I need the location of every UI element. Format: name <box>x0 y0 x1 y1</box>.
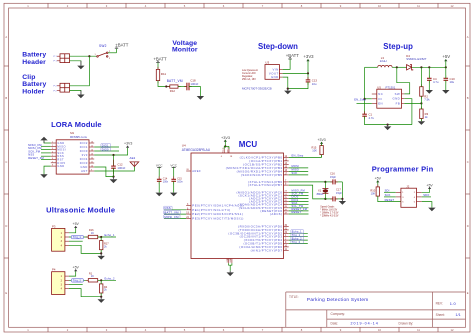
label Trig_2 <box>291 240 304 244</box>
wire DIO0 <box>94 150 119 152</box>
resistor R4 <box>100 281 108 295</box>
MCU right PD pins <box>284 227 289 251</box>
power +BATT <box>115 42 129 48</box>
wire to VCC AVCC pins <box>224 145 229 147</box>
node BATT_VM tap <box>165 85 167 87</box>
wire junction to R17 <box>100 237 102 241</box>
wire VOUT down to C13 <box>307 73 309 80</box>
svg-text:DIO4: DIO4 <box>80 157 88 161</box>
wire Trig_2 <box>289 243 308 245</box>
wire C12 to ground <box>113 168 115 176</box>
label Trig_2 boxed <box>71 279 83 283</box>
wire MOSI_FM <box>164 217 186 219</box>
connector P3 <box>52 224 69 251</box>
wire SW node down to U5 SW pin <box>397 67 410 94</box>
svg-text:GND: GND <box>271 75 279 79</box>
wire R1 to Echo_2 <box>98 279 116 281</box>
power +3V3 above R15 <box>317 138 325 145</box>
label Trig_1 boxed <box>71 235 83 239</box>
wire R10 to RESET row <box>378 196 401 202</box>
capacitor C13 <box>306 77 318 86</box>
svg-text:ANT: ANT <box>81 169 88 173</box>
wire switch to +BATT <box>108 52 117 54</box>
svg-text:MISO: MISO <box>292 168 300 172</box>
svg-text:Parking Detection System: Parking Detection System <box>307 297 369 302</box>
svg-text:11: 11 <box>417 328 420 332</box>
ground up <box>40 137 47 143</box>
svg-text:4: 4 <box>52 152 53 154</box>
text U3 description <box>242 69 258 81</box>
svg-text:3V3: 3V3 <box>82 153 88 157</box>
svg-text:MOSI_FM: MOSI_FM <box>164 215 179 219</box>
MCU right PC pins <box>284 192 289 214</box>
svg-text:GND: GND <box>392 97 400 101</box>
svg-text:Battery: Battery <box>22 52 46 59</box>
node XTAL1 <box>324 181 326 183</box>
node FB junction <box>420 102 422 104</box>
svg-text:P1: P1 <box>54 61 58 63</box>
svg-text:7.5k: 7.5k <box>424 97 430 101</box>
wire R3 to ground <box>420 119 422 122</box>
svg-text:1: 1 <box>52 142 53 144</box>
svg-text:R12: R12 <box>170 89 176 93</box>
section title Battery Header <box>22 52 46 66</box>
power +5V <box>73 266 80 272</box>
svg-text:13: 13 <box>91 154 93 156</box>
resistor R3 <box>420 107 429 122</box>
wire D4 to +5V rail <box>412 66 446 68</box>
svg-text:+5V: +5V <box>442 54 450 59</box>
node ground junction <box>112 176 114 178</box>
wire junction to R4 <box>100 280 102 284</box>
power flag VCC with C14 <box>156 164 163 180</box>
ground <box>170 193 177 197</box>
power +3V3 <box>124 142 132 148</box>
node R2 branch <box>420 66 422 68</box>
svg-text:10K: 10K <box>371 192 376 196</box>
svg-text:2: 2 <box>52 145 53 147</box>
label NSS <box>164 206 172 210</box>
node ground junction <box>100 252 102 254</box>
svg-text:+BATT: +BATT <box>286 53 300 58</box>
switch SW2 <box>95 44 112 60</box>
wire DIO1 <box>94 146 119 148</box>
svg-text:Battery: Battery <box>22 81 46 88</box>
capacitor C18 <box>184 79 198 91</box>
svg-text:1K: 1K <box>91 232 94 235</box>
svg-text:B: B <box>5 96 7 100</box>
title block <box>286 292 466 327</box>
svg-text:Echo_1: Echo_1 <box>105 233 115 237</box>
svg-text:DIO3: DIO3 <box>80 161 88 165</box>
svg-text:Ultrasonic Module: Ultrasonic Module <box>46 206 115 215</box>
wire RESET_FM <box>41 159 51 161</box>
wire GND pin to ground node <box>94 167 113 177</box>
node SW junction <box>396 66 398 68</box>
wire DIO0 <box>289 198 309 200</box>
svg-text:Header: Header <box>22 59 46 66</box>
svg-text:U3: U3 <box>265 60 269 64</box>
wire GND pin8 down <box>44 166 51 174</box>
wire SDI <box>384 191 396 193</box>
svg-text:Date:: Date: <box>331 322 339 326</box>
svg-text:16: 16 <box>91 142 93 144</box>
wire Echo_1 <box>289 232 308 234</box>
svg-text:AVCC: AVCC <box>226 146 229 152</box>
svg-text:10: 10 <box>378 4 381 8</box>
power +3V3 <box>303 54 314 61</box>
svg-text:REV:: REV: <box>436 302 443 306</box>
svg-text:SDO: SDO <box>423 193 429 197</box>
svg-text:GND: GND <box>81 165 88 169</box>
svg-text:10K: 10K <box>312 149 317 153</box>
svg-text:3: 3 <box>52 148 53 150</box>
connector P2 clip battery holder <box>54 83 70 92</box>
svg-text:AREF: AREF <box>192 169 201 173</box>
svg-text:SCK: SCK <box>385 193 391 197</box>
svg-text:9: 9 <box>91 170 92 172</box>
pin AVCC <box>228 149 230 153</box>
wire J2 pin2 to +5V <box>422 187 430 192</box>
svg-text:Monitor: Monitor <box>172 47 198 54</box>
connector J2 <box>396 184 422 207</box>
svg-text:E: E <box>5 291 7 295</box>
diode D4 <box>406 54 427 70</box>
svg-text:Trig_1: Trig_1 <box>73 236 81 239</box>
wire SCK <box>289 174 309 176</box>
wire VBAT rail left segment <box>365 66 378 68</box>
svg-text:B: B <box>467 96 469 100</box>
svg-text:(AIN1/PTCXY)PD7: (AIN1/PTCXY)PD7 <box>251 248 283 252</box>
svg-text:100nF: 100nF <box>117 166 125 170</box>
svg-text:8: 8 <box>52 165 53 167</box>
label BATT_VM <box>164 211 181 215</box>
svg-text:VCC: VCC <box>223 147 225 152</box>
svg-text:P3: P3 <box>52 224 56 228</box>
power +3V3 above MCU <box>221 136 230 146</box>
wire left vertical VBAT <box>364 67 366 114</box>
svg-text:RESET: RESET <box>292 210 302 214</box>
wire Echo_2 <box>289 239 308 241</box>
svg-text:(XTAL2/TOSC2)PB7: (XTAL2/TOSC2)PB7 <box>248 183 282 187</box>
svg-text:12: 12 <box>451 4 454 8</box>
wire SCL_TW <box>289 207 309 209</box>
wire Trig_1 <box>289 236 308 238</box>
wire MISO <box>289 170 309 172</box>
svg-text:10u: 10u <box>450 80 455 84</box>
svg-text:P2: P2 <box>54 90 58 92</box>
wire +BATT to R11 <box>157 63 159 70</box>
svg-text:D: D <box>467 224 469 228</box>
ground <box>384 125 391 131</box>
svg-text:Holder: Holder <box>22 88 44 95</box>
wire MOSI <box>289 167 309 169</box>
resistor R10 <box>370 184 379 198</box>
svg-text:MCU: MCU <box>239 140 258 149</box>
svg-text:DIO0: DIO0 <box>80 149 88 153</box>
svg-text:Clip: Clip <box>22 74 35 81</box>
svg-text:PE3(PTCXY/ADC7/T3/MOSI1): PE3(PTCXY/ADC7/T3/MOSI1) <box>192 216 244 220</box>
svg-text:SS84XL-E3/52T: SS84XL-E3/52T <box>406 57 427 61</box>
capacitor C12 <box>111 155 125 174</box>
wire R12 to C18 <box>178 86 187 88</box>
wire DIO1 <box>289 201 309 203</box>
svg-text:15pF: 15pF <box>336 191 342 195</box>
label Echo_1 <box>291 230 304 234</box>
svg-text:Speed Grade:: Speed Grade: <box>320 205 335 208</box>
svg-text:12: 12 <box>91 158 93 160</box>
wire SDA <box>289 204 309 206</box>
svg-text:Echo_2: Echo_2 <box>105 277 115 281</box>
svg-text:MOSI: MOSI <box>292 164 300 168</box>
svg-text:SW: SW <box>395 92 401 96</box>
ground <box>442 90 449 94</box>
wire P1 pin2 to ground <box>70 61 81 66</box>
wire FB to divider <box>404 102 421 104</box>
svg-text:TITLE:: TITLE: <box>289 295 299 299</box>
svg-text:14: 14 <box>91 150 93 152</box>
svg-text:15: 15 <box>91 146 93 148</box>
svg-text:Drawn By:: Drawn By: <box>399 322 414 326</box>
svg-text:+3V3: +3V3 <box>317 138 325 142</box>
svg-text:+5V: +5V <box>73 266 80 270</box>
svg-text:6: 6 <box>52 158 53 160</box>
wire bottom ground rail <box>365 116 412 124</box>
wire SDO <box>422 196 431 198</box>
wire VOUT to +3V3 <box>283 59 308 73</box>
resistor R11 <box>156 67 166 83</box>
node divider junction <box>100 236 102 238</box>
wire IN pin <box>365 98 372 100</box>
svg-text:GND: GND <box>227 257 229 262</box>
svg-text:BATT_VM: BATT_VM <box>167 79 183 83</box>
wire SCK_FM <box>289 194 309 196</box>
wire +BATT to VIN <box>283 59 291 69</box>
regulator U3 <box>265 60 283 79</box>
wire C4 to ground <box>428 80 430 90</box>
svg-text:+5V: +5V <box>73 222 80 226</box>
node C4 branch <box>428 66 430 68</box>
ground <box>339 199 346 205</box>
wire NSS <box>164 209 186 211</box>
wire R15 to pin <box>321 155 323 158</box>
svg-text:10: 10 <box>91 166 93 168</box>
wire L3 to D4 <box>392 66 407 68</box>
MCU bottom GND pins <box>227 257 232 263</box>
svg-text:+5V: +5V <box>426 183 433 187</box>
ground <box>227 271 234 276</box>
wire P3 pin4 to ground rail <box>69 245 101 253</box>
wire BATT_VM <box>164 213 186 215</box>
wire GND pins to ground <box>229 263 232 265</box>
capacitor C17 <box>325 188 342 202</box>
node IN junction <box>364 98 366 100</box>
svg-text:1K: 1K <box>91 275 94 278</box>
wire C13 to ground rail <box>288 82 308 89</box>
svg-text:EN_Step: EN_Step <box>354 97 366 101</box>
svg-text:J2: J2 <box>406 184 409 188</box>
svg-text:Programmer Pin: Programmer Pin <box>372 165 434 174</box>
connector P1 battery header <box>54 54 70 63</box>
wire R2 to FB <box>420 96 422 103</box>
node VOUT junction <box>307 72 309 74</box>
svg-text:12: 12 <box>451 328 454 332</box>
wire P3 pin1 to +5V <box>69 227 76 233</box>
ground <box>428 208 435 212</box>
label Echo_2 <box>291 236 304 240</box>
MCU left PE pins <box>186 206 191 219</box>
wire MOSI_FM <box>41 149 51 151</box>
pin VCC <box>223 149 225 153</box>
node junction battery <box>88 55 90 57</box>
svg-text:8MHz: 8MHz <box>317 192 324 196</box>
svg-text:EN_Step: EN_Step <box>292 154 304 158</box>
wire P2 pin2 to ground <box>70 90 81 94</box>
svg-text:SCK: SCK <box>292 171 298 175</box>
ground <box>284 89 291 95</box>
svg-text:RESET: RESET <box>385 198 395 202</box>
ground <box>110 177 118 184</box>
svg-text:RESET_FM: RESET_FM <box>28 156 44 160</box>
svg-text:+BATT: +BATT <box>153 57 167 62</box>
wire P2 pin1 up to junction <box>70 56 90 86</box>
svg-text:MCP1700T-3302E/CB: MCP1700T-3302E/CB <box>242 86 272 90</box>
wire FB to R3 <box>420 103 422 109</box>
node +5V branch <box>445 66 447 68</box>
wire EN_Step to R15 <box>289 156 322 158</box>
wire EN pin with label <box>357 103 372 105</box>
svg-text:22uH: 22uH <box>380 59 387 63</box>
label MOSI_FM <box>164 215 180 219</box>
ground <box>197 96 204 100</box>
svg-text:100nF: 100nF <box>190 82 198 86</box>
wire P4 pin2 to R1 <box>69 279 88 281</box>
node VCC junction <box>224 145 226 147</box>
wire MISO_FM <box>289 191 309 193</box>
svg-text:DIO1: DIO1 <box>102 143 109 147</box>
wire P3 pin3 <box>69 240 83 242</box>
svg-text:IN: IN <box>378 97 382 101</box>
svg-text:11: 11 <box>91 162 93 164</box>
power +5V <box>426 183 433 189</box>
wire R17 to ground rail <box>100 250 102 254</box>
node ground junction <box>287 88 289 90</box>
svg-text:P1: P1 <box>54 56 58 58</box>
wire 3V3 to +3V3 <box>94 148 127 155</box>
svg-text:D: D <box>5 224 7 228</box>
svg-text:PT1301: PT1301 <box>386 85 396 89</box>
wire C10 to ground <box>445 80 447 90</box>
wire C15 to ground <box>173 181 175 192</box>
svg-text:ATMEGA328PB-AU: ATMEGA328PB-AU <box>182 148 211 152</box>
wire P4 pin3 <box>69 284 83 286</box>
capacitor C10 <box>444 75 456 84</box>
resistor R1 <box>86 272 100 282</box>
wire R16 to Echo_1 <box>98 236 116 238</box>
svg-text:A: A <box>467 35 469 39</box>
wire SCK_FM <box>41 152 51 154</box>
svg-text:10u: 10u <box>312 82 317 86</box>
svg-text:R11: R11 <box>161 72 167 76</box>
power flag VCC with C15 <box>170 164 177 180</box>
wire rail to C10 <box>445 67 447 78</box>
wire NSS <box>41 155 51 157</box>
connector P4 <box>52 268 69 295</box>
label Trig_1 <box>291 233 304 237</box>
wire P4 pin1 to +5V <box>69 270 76 276</box>
svg-text:1.0: 1.0 <box>450 301 457 306</box>
module M1 RFM95 <box>51 131 94 174</box>
svg-text:AE2: AE2 <box>130 156 136 160</box>
node ground junction <box>100 296 102 298</box>
resistor R2 <box>420 84 430 101</box>
section title Voltage Monitor <box>172 40 198 53</box>
wire RESET <box>289 213 309 215</box>
label DIO1 <box>101 143 111 147</box>
svg-text:+BATT: +BATT <box>115 42 129 47</box>
crystal X1 <box>317 182 329 199</box>
wire P1 pin1 to switch <box>70 55 97 57</box>
ground <box>98 297 105 303</box>
resistor R12 <box>167 85 180 93</box>
resistor R17 <box>100 238 110 252</box>
pin AREF <box>186 169 201 173</box>
svg-text:1/1: 1/1 <box>456 313 461 317</box>
svg-text:* 16MHz 2.7-5.5V: * 16MHz 2.7-5.5V <box>320 212 339 214</box>
svg-text:11: 11 <box>417 4 420 8</box>
wire MISO_FM <box>41 145 51 147</box>
svg-text:RFM95 conv: RFM95 conv <box>70 135 88 139</box>
svg-text:E: E <box>467 291 469 295</box>
power +5V <box>442 54 450 67</box>
svg-text:15pF: 15pF <box>330 175 336 179</box>
svg-text:C: C <box>5 160 7 164</box>
node divider junction <box>100 279 102 281</box>
power +5V <box>73 222 80 228</box>
svg-text:Step-up: Step-up <box>383 42 413 51</box>
node C12 tap <box>112 154 114 156</box>
wire P3 pin2 to R16 <box>69 236 88 238</box>
svg-text:DIO1: DIO1 <box>80 145 88 149</box>
wire C14 to ground <box>158 181 160 192</box>
ground <box>156 193 163 197</box>
svg-text:* 20MHz 4.5-5.5V: * 20MHz 4.5-5.5V <box>320 215 339 217</box>
svg-text:5: 5 <box>52 155 53 157</box>
svg-text:Trig_2: Trig_2 <box>73 279 81 282</box>
svg-text:SW2: SW2 <box>99 44 107 48</box>
wire crystal cap right rail <box>341 182 343 199</box>
label DIO0 <box>101 147 111 151</box>
MCU U4 ATMEGA328PB-AU <box>182 144 284 259</box>
wire SCK <box>384 196 396 198</box>
wire P4 pin4 to ground rail <box>69 289 101 297</box>
svg-text:P2: P2 <box>54 86 58 88</box>
power +5V <box>375 177 382 187</box>
svg-text:LORA Module: LORA Module <box>51 120 102 129</box>
wire RESET_FM <box>289 210 309 212</box>
svg-text:4.7u: 4.7u <box>369 116 375 120</box>
capacitor C4 <box>427 75 439 84</box>
ground <box>418 121 425 125</box>
svg-text:(ADC6): (ADC6) <box>270 212 283 216</box>
wire J2 pin6 to ground <box>422 202 432 208</box>
wire rail to R2 <box>420 67 422 86</box>
converter U5 <box>372 85 405 108</box>
svg-text:FB: FB <box>396 101 401 105</box>
wire rail to C4 <box>428 67 430 78</box>
svg-text:DIO2: DIO2 <box>80 141 88 145</box>
wire C18 to ground <box>189 87 200 97</box>
